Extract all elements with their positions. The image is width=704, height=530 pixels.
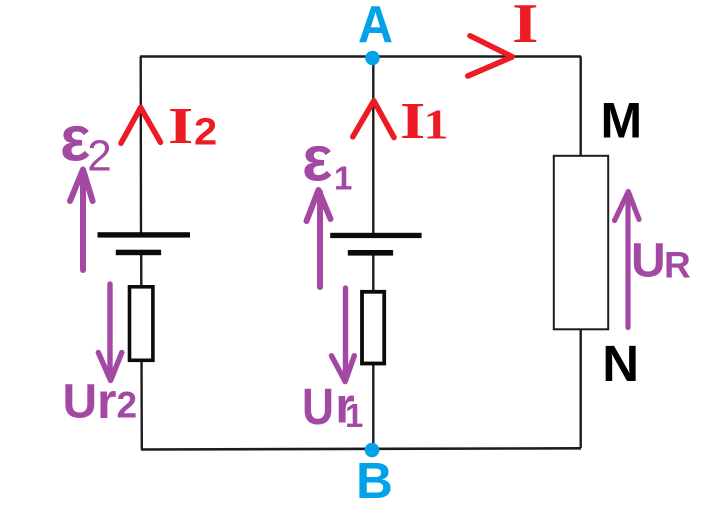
emf arrow E1 bbox=[307, 190, 331, 287]
label UR bbox=[631, 235, 691, 288]
wire left branch upper bbox=[139, 57, 142, 237]
svg-text:U: U bbox=[631, 235, 666, 288]
label I bbox=[512, 0, 539, 55]
node label M bbox=[601, 93, 643, 149]
label I1 bbox=[400, 93, 449, 150]
wire middle branch lower bbox=[372, 252, 374, 450]
svg-text:2: 2 bbox=[87, 132, 111, 181]
svg-text:I: I bbox=[168, 98, 193, 155]
svg-text:A: A bbox=[358, 0, 393, 54]
node B bbox=[365, 443, 380, 458]
battery E2 long plate bbox=[98, 232, 191, 237]
label Ur2 bbox=[63, 373, 138, 429]
label I2 bbox=[168, 98, 217, 155]
svg-text:I: I bbox=[400, 93, 425, 150]
battery E1 long plate bbox=[330, 233, 421, 238]
node label B bbox=[356, 452, 393, 509]
voltage arrow Ur1 bbox=[332, 288, 355, 382]
battery E1 short plate bbox=[348, 250, 393, 256]
label epsilon2 bbox=[60, 103, 112, 181]
wire left branch lower bbox=[140, 251, 143, 450]
svg-text:ε: ε bbox=[302, 122, 332, 194]
wire right branch bbox=[580, 57, 582, 449]
svg-text:2: 2 bbox=[117, 385, 138, 426]
node label A bbox=[358, 0, 393, 54]
svg-text:I: I bbox=[512, 0, 539, 55]
svg-text:ε: ε bbox=[60, 103, 90, 175]
current arrow I2 bbox=[121, 108, 161, 144]
svg-text:r: r bbox=[97, 373, 116, 429]
voltage arrow UR bbox=[615, 192, 639, 328]
resistor r1 bbox=[362, 292, 384, 364]
emf arrow E2 bbox=[70, 170, 93, 271]
resistor r2 bbox=[130, 287, 153, 361]
current arrow I bbox=[468, 36, 512, 76]
node label N bbox=[602, 335, 639, 392]
battery E2 short plate bbox=[116, 250, 161, 256]
svg-text:R: R bbox=[664, 245, 691, 286]
wire bottom B bbox=[141, 448, 581, 449]
svg-text:1: 1 bbox=[424, 103, 449, 149]
svg-text:1: 1 bbox=[334, 160, 352, 197]
resistor R bbox=[554, 156, 608, 329]
svg-text:1: 1 bbox=[345, 397, 363, 434]
current arrow I1 bbox=[353, 101, 394, 138]
label Ur1 bbox=[302, 378, 363, 435]
label epsilon1 bbox=[302, 122, 352, 196]
svg-text:B: B bbox=[356, 452, 393, 509]
svg-text:2: 2 bbox=[194, 112, 217, 154]
voltage arrow Ur2 bbox=[98, 284, 122, 381]
wire middle branch upper bbox=[372, 57, 374, 237]
svg-text:M: M bbox=[601, 93, 643, 149]
svg-text:U: U bbox=[63, 376, 98, 429]
svg-text:N: N bbox=[602, 335, 639, 392]
svg-text:U: U bbox=[302, 378, 334, 435]
wire top A bbox=[140, 55, 581, 57]
node A bbox=[365, 51, 379, 65]
